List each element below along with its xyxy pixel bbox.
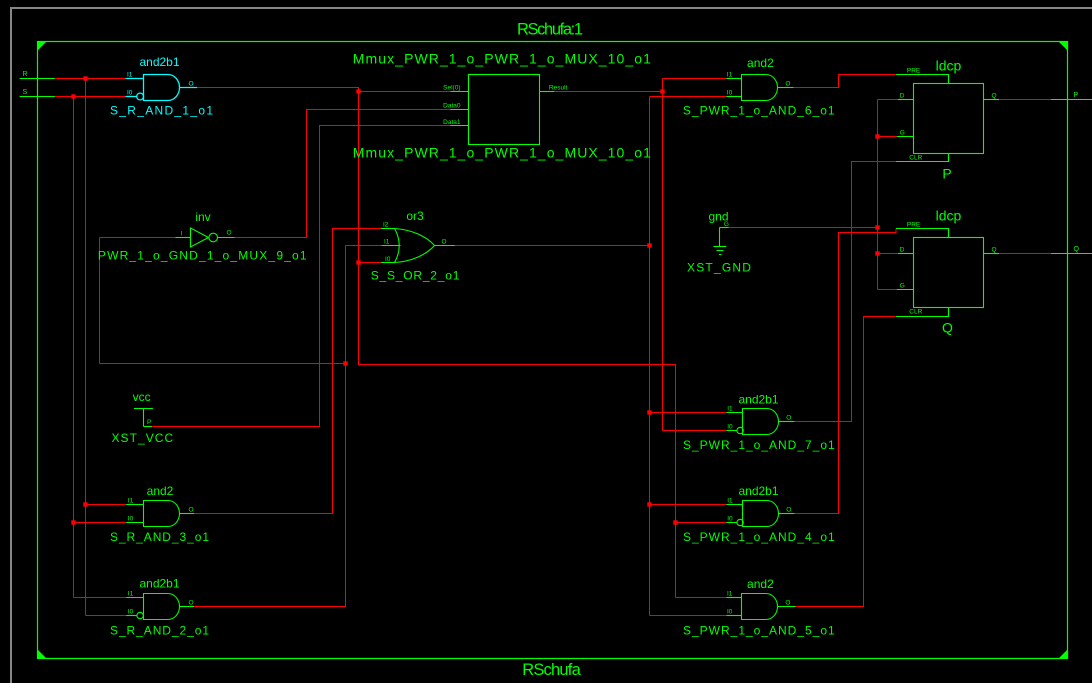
svg-text:PWR_1_o_GND_1_o_MUX_9_o1: PWR_1_o_GND_1_o_MUX_9_o1 xyxy=(98,249,307,263)
svg-text:Q: Q xyxy=(1074,246,1080,253)
svg-text:S_S_OR_2_o1: S_S_OR_2_o1 xyxy=(371,269,460,283)
and2b1 S_R_AND_2_o1 xyxy=(144,594,180,620)
svg-text:ldcp: ldcp xyxy=(936,207,962,223)
svg-text:Data1: Data1 xyxy=(443,119,461,126)
mux Mmux_PWR_1_o_PWR_1_o_MUX_10_o1 xyxy=(469,75,540,145)
svg-text:XST_GND: XST_GND xyxy=(687,261,751,275)
and2 S_PWR_1_o_AND_5_o1 xyxy=(742,594,778,620)
svg-text:PRE: PRE xyxy=(907,222,921,229)
svg-text:CLR: CLR xyxy=(909,155,922,162)
svg-text:S_PWR_1_o_AND_4_o1: S_PWR_1_o_AND_4_o1 xyxy=(683,530,835,544)
svg-text:PRE: PRE xyxy=(907,68,921,75)
wire net S_R_AND_3_o1 output to or3 I2 xyxy=(194,229,381,514)
wire net S_R_AND_2_o1 output to or3 I1 and inv input xyxy=(194,246,346,607)
wire ldcp Q Q-output to port Q xyxy=(999,253,1051,255)
wire ldcp P Q-output to port P xyxy=(999,99,1051,101)
svg-text:S_R_AND_3_o1: S_R_AND_3_o1 xyxy=(110,530,209,544)
svg-text:I1: I1 xyxy=(727,406,733,413)
svg-text:O: O xyxy=(189,600,194,607)
svg-text:D: D xyxy=(900,93,905,100)
junction P latch G xyxy=(875,134,879,138)
svg-text:I1: I1 xyxy=(128,591,134,598)
svg-text:or3: or3 xyxy=(406,209,424,223)
svg-text:gnd: gnd xyxy=(709,210,729,224)
svg-text:Q: Q xyxy=(942,320,953,336)
svg-text:RSchufa: RSchufa xyxy=(522,661,581,679)
wire net mux Result to AND6 I1 and AND7 I0 xyxy=(554,91,662,93)
wire net inv output to mux Data0 xyxy=(235,110,451,238)
svg-text:ldcp: ldcp xyxy=(936,57,962,73)
svg-text:O: O xyxy=(786,414,791,421)
svg-text:Mmux_PWR_1_o_PWR_1_o_MUX_10_o1: Mmux_PWR_1_o_PWR_1_o_MUX_10_o1 xyxy=(353,51,651,67)
wire net vcc to mux Data1 xyxy=(152,126,450,427)
junction Result xyxy=(660,89,664,93)
svg-text:I: I xyxy=(181,231,183,238)
svg-text:P: P xyxy=(147,419,151,426)
svg-text:O: O xyxy=(785,80,790,87)
and2b1 S_PWR_1_o_AND_4_o1 xyxy=(743,501,779,527)
input port R xyxy=(20,78,55,80)
junction AND7 I1 xyxy=(647,410,651,414)
svg-text:Q: Q xyxy=(992,247,997,254)
svg-text:S_R_AND_2_o1: S_R_AND_2_o1 xyxy=(110,623,209,637)
svg-text:S_PWR_1_o_AND_6_o1: S_PWR_1_o_AND_6_o1 xyxy=(683,103,835,117)
svg-text:I1: I1 xyxy=(727,591,733,598)
wire net S: port S to AND gates xyxy=(55,96,126,98)
svg-text:Mmux_PWR_1_o_PWR_1_o_MUX_10_o1: Mmux_PWR_1_o_PWR_1_o_MUX_10_o1 xyxy=(353,144,651,160)
svg-text:inv: inv xyxy=(195,210,210,224)
wire net S_R_AND_1_o1: gate1 output to mux Sel, or3 I0, AND4 I0, AND5 I1 xyxy=(197,88,450,92)
and2b1 S_R_AND_1_o1 (selected, cyan) xyxy=(144,75,180,101)
wire net R: port R to AND gates xyxy=(55,78,126,80)
wire net S_S_OR_2_o1 output: to AND6 I0, AND7 I1, AND4 I1, AND5 I0 xyxy=(455,245,650,247)
junction at AND4 I0 xyxy=(673,520,677,524)
ldcp latch P xyxy=(914,84,984,154)
svg-text:D: D xyxy=(900,247,905,254)
junction R at S_R_AND_1 I1 xyxy=(83,76,87,80)
svg-text:S_R_AND_1_o1: S_R_AND_1_o1 xyxy=(110,104,213,118)
svg-text:S_PWR_1_o_AND_5_o1: S_PWR_1_o_AND_5_o1 xyxy=(683,623,835,637)
svg-text:and2b1: and2b1 xyxy=(738,392,778,406)
junction or3 out xyxy=(647,243,651,247)
svg-text:I2: I2 xyxy=(383,222,389,229)
svg-text:I0: I0 xyxy=(727,516,733,523)
and2 S_PWR_1_o_AND_6_o1 xyxy=(742,75,778,101)
wire net AND4 output to ldcp Q PRE xyxy=(794,229,896,514)
wire net gnd to ldcp D/G pins xyxy=(729,227,878,229)
output port P xyxy=(1051,99,1092,101)
svg-text:I1: I1 xyxy=(384,239,390,246)
svg-text:I1: I1 xyxy=(727,498,733,505)
svg-text:I0: I0 xyxy=(727,609,733,616)
svg-text:O: O xyxy=(785,599,790,606)
svg-text:and2b1: and2b1 xyxy=(139,55,179,69)
junction S at S_R_AND_1 I0 xyxy=(71,94,75,98)
input port S xyxy=(20,96,55,98)
svg-text:and2: and2 xyxy=(147,484,174,498)
svg-text:I1: I1 xyxy=(727,72,733,79)
svg-text:vcc: vcc xyxy=(133,390,151,404)
svg-text:I0: I0 xyxy=(127,90,133,97)
svg-text:O: O xyxy=(227,230,232,237)
junction net A xyxy=(343,361,347,365)
svg-text:and2b1: and2b1 xyxy=(139,577,179,591)
svg-text:RSchufa:1: RSchufa:1 xyxy=(517,20,583,38)
svg-text:P: P xyxy=(942,166,951,182)
svg-text:P: P xyxy=(1074,92,1079,99)
svg-text:I1: I1 xyxy=(128,498,134,505)
svg-text:S_PWR_1_o_AND_7_o1: S_PWR_1_o_AND_7_o1 xyxy=(683,438,835,452)
svg-text:Result: Result xyxy=(549,85,568,92)
svg-text:I0: I0 xyxy=(385,256,391,263)
junction AND4 I1 xyxy=(647,502,651,506)
svg-text:XST_VCC: XST_VCC xyxy=(112,431,174,445)
svg-text:Data0: Data0 xyxy=(443,103,461,110)
svg-text:Sel(0): Sel(0) xyxy=(443,85,460,92)
svg-text:R: R xyxy=(23,71,28,78)
svg-text:I0: I0 xyxy=(727,424,733,431)
svg-text:O: O xyxy=(786,506,791,513)
inverter PWR_1_o_GND_1_o_MUX_9_o1 xyxy=(191,228,209,247)
and2 S_R_AND_3_o1 xyxy=(144,501,180,527)
junction R at S_R_AND_3 I1 xyxy=(83,502,87,506)
and2b1 S_PWR_1_o_AND_7_o1 xyxy=(743,409,779,435)
svg-text:I0: I0 xyxy=(128,516,134,523)
wire net AND6 output to ldcp P PRE xyxy=(794,75,897,88)
wire net AND5 output to ldcp Q CLR xyxy=(796,317,896,607)
junction at or3 I0 xyxy=(356,260,360,264)
junction gnd xyxy=(875,225,879,229)
junction S at S_R_AND_3 I0 xyxy=(71,520,75,524)
svg-text:and2b1: and2b1 xyxy=(738,484,778,498)
output port Q xyxy=(1051,253,1092,255)
svg-text:G: G xyxy=(900,282,905,289)
or3 S_S_OR_2_o1 xyxy=(395,229,435,263)
svg-text:S: S xyxy=(23,89,28,96)
svg-text:G: G xyxy=(900,129,905,136)
junction Q latch D xyxy=(875,251,879,255)
svg-text:CLR: CLR xyxy=(909,309,922,316)
svg-text:O: O xyxy=(189,507,194,514)
svg-text:Q: Q xyxy=(992,93,997,100)
svg-text:O: O xyxy=(442,238,447,245)
svg-text:and2: and2 xyxy=(747,56,774,70)
svg-text:and2: and2 xyxy=(747,577,774,591)
vcc symbol XST_VCC xyxy=(134,408,153,410)
junction at Sel corner xyxy=(356,89,360,93)
ground symbol XST_GND xyxy=(720,227,729,229)
svg-text:I0: I0 xyxy=(727,90,733,97)
wire net AND7 output to ldcp P CLR xyxy=(794,162,896,422)
svg-text:I0: I0 xyxy=(128,609,134,616)
ldcp latch Q xyxy=(914,238,984,308)
svg-text:I1: I1 xyxy=(127,72,133,79)
svg-text:O: O xyxy=(189,80,194,87)
